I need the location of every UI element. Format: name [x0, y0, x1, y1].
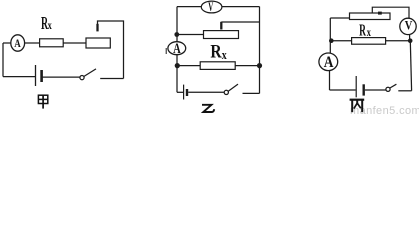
- wire bottom left to battery: [330, 89, 356, 91]
- resistor Rx box: [352, 38, 386, 45]
- label 丙: [350, 100, 365, 113]
- battery long plate: [183, 85, 185, 100]
- wire voltmeter to dot: [409, 35, 411, 41]
- rheostat box: [350, 13, 391, 20]
- switch pivot circle: [80, 76, 84, 80]
- wire ammeter to Rx: [25, 42, 40, 44]
- switch blade: [228, 84, 238, 91]
- label Rx: [41, 14, 52, 34]
- svg-text:x: x: [222, 49, 227, 62]
- switch pivot circle: [386, 87, 390, 91]
- wire bottom left to battery: [3, 76, 35, 78]
- svg-text:A: A: [324, 54, 334, 71]
- wire resistor to right dot: [386, 40, 409, 42]
- resistor Rx box: [40, 39, 64, 47]
- wire switch to right corner: [243, 92, 260, 94]
- voltmeter V (circle): [400, 18, 416, 34]
- svg-text:V: V: [405, 20, 413, 33]
- wire left column upper: [176, 7, 178, 42]
- svg-text:x: x: [367, 27, 371, 40]
- svg-text:A: A: [173, 41, 181, 57]
- wire switch to right corner: [398, 90, 411, 92]
- rheostat box: [204, 31, 239, 39]
- ammeter A (circle): [319, 53, 338, 71]
- node junction dot left: [175, 63, 180, 68]
- svg-text:x: x: [48, 20, 52, 33]
- label 甲: [38, 95, 47, 108]
- wire top-left to rheostat: [330, 17, 349, 19]
- battery long plate: [35, 65, 37, 86]
- wire left column upper: [329, 18, 331, 53]
- wire junction to resistor: [180, 65, 201, 67]
- node junction dot right: [257, 63, 262, 68]
- wire slider up and right vertical: [98, 21, 124, 79]
- wire Rx to rheostat: [63, 42, 86, 44]
- wire top left: [177, 6, 201, 8]
- wire top right: [222, 6, 260, 8]
- node junction dot left: [329, 38, 334, 43]
- wire right column: [259, 7, 261, 94]
- battery short plate: [40, 70, 43, 82]
- rheostat slider knob: [378, 12, 382, 15]
- wire left column lower: [329, 71, 331, 90]
- svg-text:R: R: [210, 41, 222, 62]
- ammeter left terminal tick: [165, 48, 167, 54]
- rheostat box: [86, 38, 110, 48]
- battery short plate: [363, 84, 365, 95]
- svg-text:A: A: [14, 38, 21, 50]
- wire battery to switch: [42, 76, 80, 78]
- svg-text:V: V: [208, 1, 213, 15]
- switch pivot circle: [224, 90, 228, 94]
- ammeter A (circle): [168, 42, 186, 55]
- battery short plate: [186, 89, 188, 96]
- wire resistor to right dot: [235, 65, 257, 67]
- node junction dot upper: [174, 32, 179, 37]
- voltmeter V (ellipse): [201, 1, 222, 13]
- label Rx: [359, 22, 371, 41]
- wire battery to switch: [188, 91, 224, 93]
- wire bottom right segment: [100, 78, 123, 80]
- svg-text:R: R: [359, 22, 366, 41]
- switch blade: [390, 84, 397, 88]
- wire left column lower: [176, 55, 178, 93]
- wire right column: [410, 41, 411, 91]
- label 乙: [202, 105, 214, 112]
- label Rx: [210, 41, 227, 62]
- rheostat slider wire: [372, 7, 409, 18]
- rheostat slider bar: [96, 24, 98, 32]
- battery long plate: [355, 76, 357, 97]
- ammeter A (circle): [11, 35, 25, 51]
- switch blade: [84, 69, 96, 77]
- wire left vertical: [2, 43, 4, 77]
- wire junction to rheostat: [179, 34, 204, 36]
- wire dot to resistor: [333, 40, 352, 42]
- resistor Rx box: [200, 62, 235, 70]
- wire bottom left: [177, 91, 183, 93]
- wire top-left to ammeter: [3, 42, 11, 44]
- wire battery to switch: [365, 89, 386, 91]
- node junction dot right: [408, 38, 413, 43]
- rheostat slider bar: [220, 22, 222, 30]
- wire slider to right column: [221, 21, 259, 23]
